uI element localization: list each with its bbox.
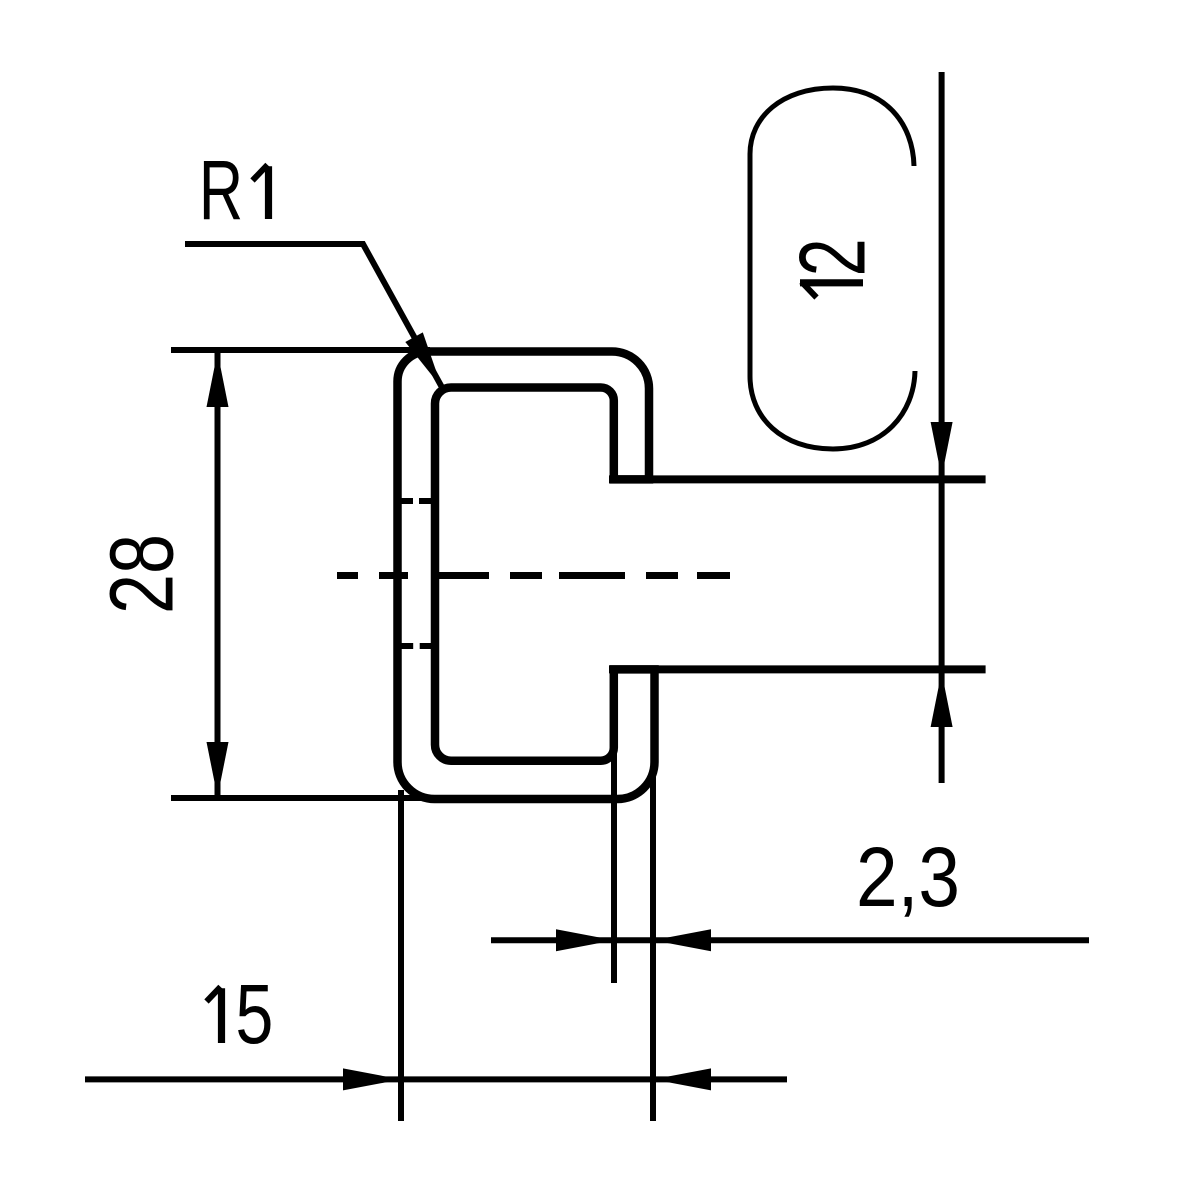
- svg-text:2: 2: [780, 238, 885, 276]
- svg-text:2,3: 2,3: [856, 830, 960, 924]
- svg-text:R: R: [199, 143, 243, 237]
- svg-text:5: 5: [235, 967, 273, 1061]
- svg-text:28: 28: [93, 534, 193, 614]
